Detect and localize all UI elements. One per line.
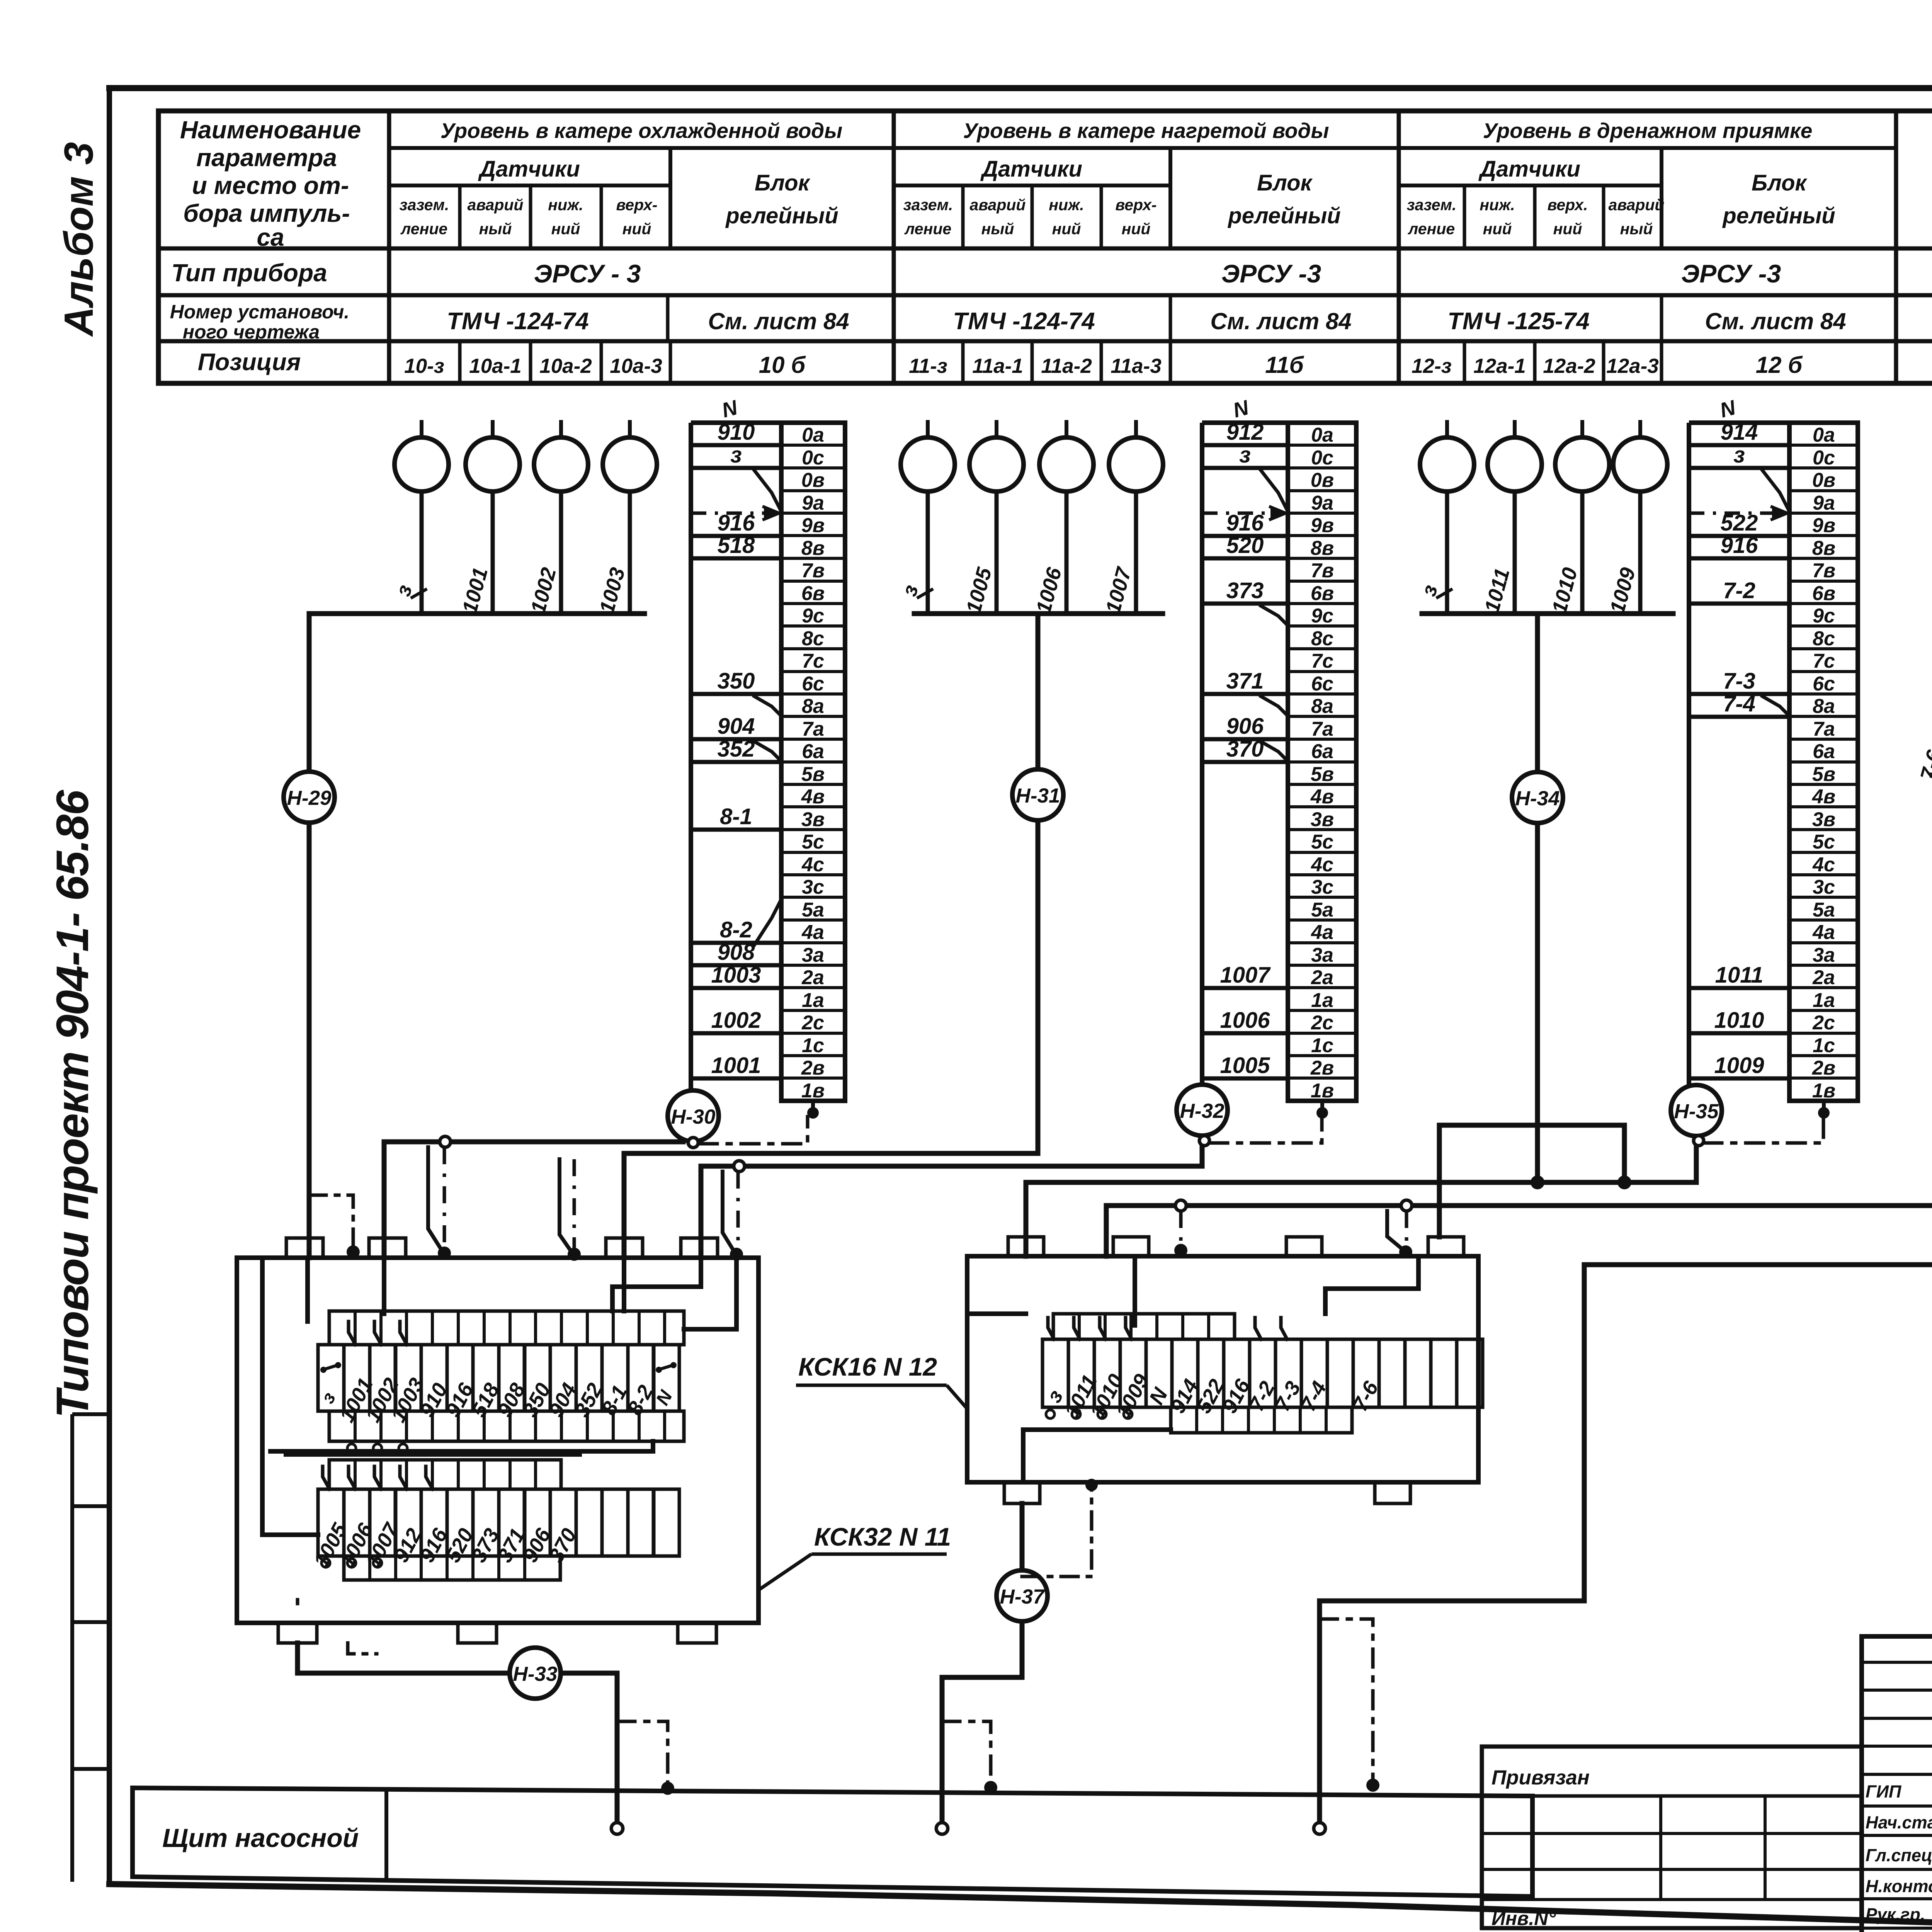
trunk wire box B to H-35 with H-34 tee [1026,1137,1696,1256]
svg-text:зазем.: зазем. [1407,196,1457,214]
svg-text:0в: 0в [801,469,825,492]
box KSK32 upper row hooks [349,1321,407,1345]
wire label 1011 (C group) [1480,566,1514,615]
svg-text:910: 910 [718,420,755,445]
svg-text:ление: ление [1408,220,1455,238]
svg-text:1с: 1с [1813,1034,1835,1057]
svg-text:1010: 1010 [1714,1008,1764,1033]
table group level chamber cooled water [389,119,894,248]
node Н-34 [1512,772,1563,823]
svg-text:3в: 3в [1812,808,1835,831]
strip B wiring bracket [1202,423,1288,1089]
svg-text:1005: 1005 [1220,1053,1270,1078]
svg-text:373: 373 [1226,578,1264,603]
svg-text:7с: 7с [802,650,824,672]
svg-text:522: 522 [1721,510,1758,536]
svg-text:9с: 9с [802,605,824,627]
node Н-31 [1012,769,1063,820]
svg-text:8с: 8с [1813,628,1835,650]
svg-text:8-2: 8-2 [720,917,752,942]
svg-text:и место от-: и место от- [192,172,349,199]
strip A rung 352 [691,736,781,762]
svg-text:верх-: верх- [616,196,657,214]
svg-text:Блок: Блок [1752,170,1808,196]
wire label з (A group) [391,582,427,599]
svg-text:7в: 7в [801,560,825,582]
wire label 1009 (C group) [1605,565,1640,616]
strip A rung 8-2 [691,902,781,945]
wire label 1002 (A group) [526,565,561,616]
dash-dot drop from H-29 wire to box A [309,1195,360,1259]
conduit pair from H-36 trunk to box B tab 2 [1387,1200,1412,1259]
svg-text:1а: 1а [1311,989,1333,1012]
box KSK32 bottom tabs [278,1623,716,1643]
svg-text:са: са [257,223,284,251]
svg-text:Гл.спец: Гл.спец [1866,1845,1932,1865]
svg-text:Наименование: Наименование [180,116,361,144]
svg-text:Альбом 3: Альбом 3 [56,142,102,337]
svg-text:2в: 2в [1812,1057,1835,1079]
strip A rung 910 [691,420,781,445]
svg-text:11а-2: 11а-2 [1041,355,1092,378]
table group level drain pit [1399,111,1896,383]
strip C rung з [1689,442,1789,509]
svg-text:1в: 1в [1311,1080,1334,1102]
svg-text:Н.конто: Н.конто [1866,1876,1932,1896]
privyazan table [1482,1747,1862,1928]
strip C rung 1009 [1689,1053,1789,1078]
svg-text:релейный: релейный [1227,203,1340,228]
svg-text:7а: 7а [802,718,824,740]
strip A rung 518 [691,533,781,558]
strip B rung з [1202,442,1288,509]
svg-text:2а: 2а [801,966,824,989]
svg-text:5а: 5а [802,899,824,921]
signature table [1862,1636,1932,1932]
svg-text:Рук.гр.: Рук.гр. [1866,1905,1925,1924]
open circle at H-30 bottom [688,1138,698,1148]
svg-text:ЭРСУ -3: ЭРСУ -3 [1221,259,1321,288]
svg-text:9а: 9а [802,492,824,514]
svg-text:Привязан: Привязан [1492,1766,1590,1789]
svg-text:ний: ний [1553,220,1582,238]
svg-text:7-2: 7-2 [1723,578,1755,603]
svg-text:8в: 8в [801,537,825,560]
sensor bus B [914,611,1163,616]
table outer border [158,111,1932,383]
box KSK16 top tabs [1008,1237,1464,1256]
conduit pair dropping to box A from H-31 trunk [560,1159,581,1261]
strip B rung dash [1202,507,1286,519]
level sensor circle C1 [1420,420,1474,614]
svg-text:ЭРСУ - 3: ЭРСУ - 3 [534,259,641,288]
svg-text:5с: 5с [802,831,824,853]
svg-text:ный: ный [479,220,512,238]
box KSK32 upper connector row [329,1411,684,1452]
svg-text:7-4: 7-4 [1723,691,1755,716]
strip A bottom stub [807,1101,819,1119]
svg-text:4а: 4а [1812,921,1835,944]
wire label 1007 (B group) [1101,564,1136,616]
svg-text:912: 912 [1226,420,1264,445]
svg-text:Ст.инж.: Ст.инж. [1866,1929,1932,1932]
svg-text:ний: ний [551,220,580,238]
strip B rung 1007 [1202,963,1288,988]
svg-text:Н-37: Н-37 [1000,1585,1045,1608]
svg-text:ТМЧ -124-74: ТМЧ -124-74 [953,308,1095,335]
strip C rung dash [1689,507,1787,519]
strip B rung 912 [1202,420,1288,445]
strip B rung 370 [1202,736,1288,762]
svg-text:4в: 4в [1812,786,1835,808]
svg-text:0в: 0в [1812,469,1835,492]
svg-text:11а-3: 11а-3 [1111,355,1162,378]
terminal strip A [781,423,845,1102]
table row lines [158,248,1932,341]
svg-text:2с: 2с [1311,1012,1333,1034]
svg-text:9в: 9в [1812,514,1835,537]
strip C rung 7-4 [1689,691,1789,717]
svg-text:520: 520 [1226,533,1264,558]
svg-text:906: 906 [1226,714,1264,739]
conduit pair from junction down to box A [723,1172,743,1261]
svg-text:аварий: аварий [468,196,524,214]
svg-text:916: 916 [718,510,755,536]
sensor bus C [1422,611,1673,616]
svg-text:6в: 6в [1812,582,1835,605]
svg-text:ГИП: ГИП [1866,1782,1902,1801]
svg-text:ТМЧ -124-74: ТМЧ -124-74 [447,308,588,335]
svg-text:1с: 1с [1311,1034,1333,1057]
svg-text:Н-32: Н-32 [1180,1100,1225,1122]
box KSK32 lower connector row [344,1556,560,1580]
dash-dot branch of H-37 wire near panel [942,1721,997,1794]
svg-text:Инв.N°: Инв.N° [1492,1908,1556,1929]
strip B rung 1006 [1202,1008,1288,1033]
box KSK16 connector row below [1171,1407,1352,1433]
svg-text:914: 914 [1721,420,1758,445]
svg-text:0с: 0с [802,447,824,469]
level sensor circle A3 [534,420,588,614]
wire label 1010 (C group) [1548,565,1582,616]
svg-text:1а: 1а [1813,989,1835,1012]
svg-text:Датчики: Датчики [478,156,580,182]
svg-text:6с: 6с [1311,673,1333,695]
svg-text:Уровень в дренажном приямке: Уровень в дренажном приямке [1483,119,1813,143]
level sensor circle A2 [466,420,520,614]
svg-text:КСК32 N 11: КСК32 N 11 [814,1522,951,1551]
svg-text:6а: 6а [1813,740,1835,763]
svg-text:6с: 6с [1813,673,1835,695]
svg-text:ний: ний [1052,220,1081,238]
strip A rung 1003 [691,963,781,988]
svg-text:ниж.: ниж. [548,196,583,214]
box KSK16 hooks [1048,1318,1287,1339]
node Н-29 [284,772,335,823]
svg-text:8в: 8в [1311,537,1334,560]
dash-dot from H-35 to strip C stub [1704,1117,1823,1143]
svg-text:8-1: 8-1 [720,804,752,829]
svg-text:5с: 5с [1311,831,1333,853]
level sensor circle A4 [603,420,657,614]
strip A rung 8-1 [691,804,781,830]
svg-text:верх.: верх. [1548,196,1588,214]
level sensor circle B3 [1039,420,1094,614]
binding marks left edge [72,1414,109,1882]
svg-text:12а-3: 12а-3 [1606,355,1659,378]
svg-text:12а-1: 12а-1 [1473,355,1526,378]
box KSK16 finger row above [1053,1314,1235,1339]
strip C rung 1010 [1689,1008,1789,1033]
wire from box B bottom tab through H-37 to pump panel [942,1503,1022,1822]
svg-text:Датчики: Датчики [1478,156,1580,182]
level sensor circle B2 [969,420,1024,614]
svg-text:4с: 4с [1311,854,1333,876]
svg-text:Блок: Блок [1257,170,1313,196]
svg-text:10 б: 10 б [759,352,806,378]
svg-text:ный: ный [1620,220,1653,238]
strip A rung 908 [691,940,781,965]
svg-text:5а: 5а [1813,899,1835,921]
wire bus B down through H-31 westward into box KSK32 [624,614,1038,1258]
svg-text:1в: 1в [801,1080,825,1102]
box KSK32 lower finger row [329,1460,561,1489]
svg-text:9а: 9а [1311,492,1333,514]
tee junction dot H-34 [1531,1175,1544,1189]
svg-text:ЭРСУ -3: ЭРСУ -3 [1681,259,1781,288]
svg-text:Н-29: Н-29 [287,787,332,810]
strip A rung 904 [691,714,781,760]
svg-text:Номер установоч.: Номер установоч. [170,301,350,323]
table group level chamber heated water [894,111,1399,383]
push-button labels 7-6 7-2 7-3 [1916,747,1932,785]
svg-text:аварий: аварий [970,196,1026,214]
strip C bottom stub [1818,1101,1830,1119]
svg-text:4в: 4в [1310,786,1334,808]
svg-text:8а: 8а [1311,695,1333,718]
svg-text:ний: ний [1483,220,1512,238]
svg-text:Н-34: Н-34 [1515,787,1560,810]
svg-text:релейный: релейный [1722,203,1835,228]
svg-text:1в: 1в [1812,1080,1835,1102]
svg-text:908: 908 [718,940,755,965]
svg-text:2с: 2с [801,1012,824,1034]
svg-text:Тип прибора: Тип прибора [171,259,327,287]
node Н-33 [510,1648,561,1699]
svg-text:Н-30: Н-30 [671,1105,716,1128]
svg-text:1006: 1006 [1220,1008,1270,1033]
trunk wire box A to H-32 [701,1137,1202,1258]
svg-text:370: 370 [1226,736,1264,762]
svg-text:5в: 5в [1311,763,1334,786]
table column pushbutton post [1896,111,1932,383]
level sensor circle B4 [1109,420,1163,614]
svg-text:10а-3: 10а-3 [610,355,662,378]
svg-text:3а: 3а [802,944,824,966]
svg-text:1а: 1а [802,989,824,1012]
svg-text:11б: 11б [1265,352,1304,378]
svg-text:Уровень в катере охлажденной в: Уровень в катере охлажденной воды [440,119,843,143]
open circle junction on H-30 trunk [440,1136,451,1147]
strip B rung 906 [1202,714,1288,760]
terminal strip C [1789,423,1858,1102]
svg-text:12-з: 12-з [1412,355,1452,378]
privyazan table texts [1492,1766,1590,1929]
strip A wiring bracket [691,423,781,1089]
open circle terminal H-33 wire in pump panel [611,1823,623,1834]
svg-text:релейный: релейный [725,203,838,228]
svg-text:371: 371 [1226,668,1264,694]
dash-dot from H-30 to strip A stub [699,1117,808,1144]
svg-text:8с: 8с [802,628,824,650]
svg-text:Н-31: Н-31 [1016,784,1060,807]
svg-text:916: 916 [1226,510,1264,536]
svg-text:См. лист 84: См. лист 84 [1210,308,1351,334]
wire label 1006 (B group) [1032,565,1066,616]
level sensor circle A1 [395,420,449,614]
strip B bottom stub [1316,1101,1328,1119]
svg-text:8а: 8а [802,695,824,718]
svg-text:7а: 7а [1813,718,1835,740]
svg-text:з: з [1239,442,1251,468]
svg-text:зазем.: зазем. [400,196,449,214]
open circle terminal of horn wire in pump panel [1314,1823,1325,1834]
svg-text:8с: 8с [1311,628,1333,650]
svg-text:з: з [730,442,742,468]
box KSK16 internal wiring [967,1256,1418,1482]
svg-text:9в: 9в [801,514,825,537]
box KSK32 lower terminal row cells [309,1489,679,1571]
wire from box A bottom tab through H-33 to pump panel [298,1643,617,1822]
svg-text:1007: 1007 [1220,963,1271,988]
svg-text:2с: 2с [1812,1012,1835,1034]
svg-text:ного чертежа: ного чертежа [183,321,320,343]
svg-text:4в: 4в [801,786,825,808]
svg-text:3а: 3а [1311,944,1333,966]
wire label з (B group) [898,582,933,599]
svg-text:зазем.: зазем. [903,196,953,214]
svg-text:Уровень в катере нагретой воды: Уровень в катере нагретой воды [963,119,1329,143]
box KSK32 top tabs [286,1238,718,1258]
label KSK32 N11 with leader [759,1522,951,1590]
box KSK32 upper terminal row cells [317,1345,679,1426]
svg-text:1011: 1011 [1715,963,1764,988]
svg-text:2а: 2а [1311,966,1333,989]
svg-text:ТМЧ -125-74: ТМЧ -125-74 [1447,308,1589,335]
svg-text:9с: 9с [1813,605,1835,627]
svg-text:3с: 3с [802,876,824,898]
strip B rung 1005 [1202,1053,1288,1078]
strip C rung 916 [1689,533,1789,558]
strip B rung 373 [1202,578,1288,624]
strip C rung 1011 [1689,963,1789,988]
node Н-30 [668,1090,719,1141]
svg-text:350: 350 [718,668,755,694]
box KSK32 internal wiring [262,1258,736,1535]
svg-text:12 б: 12 б [1756,352,1803,378]
svg-text:верх-: верх- [1115,196,1156,214]
svg-text:1001: 1001 [711,1053,761,1078]
strip B rung 916 [1202,510,1288,536]
svg-text:Датчики: Датчики [980,156,1082,182]
svg-text:6с: 6с [802,673,824,695]
svg-text:7в: 7в [1812,560,1835,582]
svg-text:7в: 7в [1311,560,1334,582]
svg-text:10а-2: 10а-2 [539,355,592,378]
table row position values [404,341,1932,383]
box KSK32 lower row hooks [323,1466,433,1489]
box KSK32 upper finger row [329,1311,684,1345]
strip A rung 1001 [691,1053,781,1078]
svg-text:См. лист 84: См. лист 84 [1705,308,1846,334]
open circle junction on H-32 trunk [734,1161,745,1172]
node Н-37 [997,1570,1048,1621]
strip B rung 371 [1202,668,1288,714]
svg-text:904: 904 [718,714,755,739]
wire label з (C group) [1417,582,1452,599]
wire label 1005 (B group) [962,565,996,616]
svg-text:ление: ление [400,220,447,238]
trunk wire box A to H-30 [384,1142,683,1258]
svg-text:з: з [1733,442,1745,468]
dash-dot branch of H-33 wire near panel [617,1721,674,1795]
level sensor circle B1 [901,420,955,614]
svg-text:3в: 3в [1311,808,1334,831]
svg-text:4а: 4а [1311,921,1333,944]
svg-text:Н-33: Н-33 [513,1663,558,1685]
strip A rung 350 [691,668,781,714]
svg-text:Позиция: Позиция [198,349,301,376]
svg-text:7с: 7с [1311,650,1333,672]
wire bus C down through H-34 to trunk [1535,614,1540,1182]
dash-dot branch below box A [298,1600,377,1654]
svg-text:ный: ный [981,220,1014,238]
wire from horn through H-38 down-left to pump panel [1320,582,1932,1822]
branch from trunk tee up-over into box B right tab [1439,1125,1631,1237]
svg-text:6а: 6а [802,740,824,763]
wire bus A down through H-29 to box KSK32 [307,614,312,1258]
svg-text:916: 916 [1721,533,1759,558]
node Н-32 [1177,1085,1228,1136]
strip A rung 1002 [691,1008,781,1033]
svg-text:352: 352 [718,736,755,762]
svg-text:0а: 0а [1813,424,1835,446]
svg-text:2а: 2а [1812,966,1835,989]
svg-text:5а: 5а [1311,899,1333,921]
svg-text:Блок: Блок [755,170,811,196]
dash-dot from H-32 to strip B stub [1210,1117,1322,1143]
svg-text:12а-2: 12а-2 [1543,355,1595,378]
svg-text:Нач.ста: Нач.ста [1866,1813,1932,1832]
level sensor circle C4 [1613,420,1667,614]
strip B rung 520 [1202,533,1288,558]
svg-text:6а: 6а [1311,740,1333,763]
wire label 1003 (A group) [595,565,629,616]
svg-text:5в: 5в [1812,763,1835,786]
svg-text:1002: 1002 [711,1008,761,1033]
sensor bus A [309,611,645,616]
svg-text:аварий: аварий [1609,196,1665,214]
svg-text:3с: 3с [1813,876,1835,898]
conduit pair from H-36 trunk to box B tab 1 [1174,1200,1187,1257]
level sensor circle C3 [1555,420,1609,614]
svg-text:ниж.: ниж. [1480,196,1515,214]
svg-text:10а-1: 10а-1 [469,355,522,378]
svg-text:0в: 0в [1311,469,1334,492]
dash-dot stub below box B [1022,1479,1098,1577]
svg-text:4а: 4а [801,921,824,944]
open circle terminal H-37 wire in pump panel [936,1823,948,1834]
